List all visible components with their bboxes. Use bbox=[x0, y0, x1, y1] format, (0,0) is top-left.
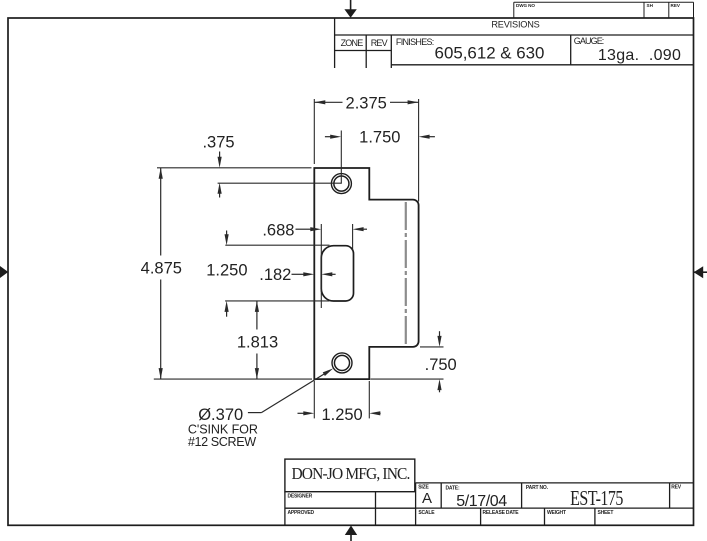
svg-text:RELEASE DATE: RELEASE DATE bbox=[483, 510, 520, 516]
svg-text:1.250: 1.250 bbox=[206, 261, 247, 279]
svg-text:13ga. .090: 13ga. .090 bbox=[598, 47, 681, 64]
svg-text:Ø.370: Ø.370 bbox=[198, 406, 243, 424]
svg-text:605,612 & 630: 605,612 & 630 bbox=[435, 43, 545, 62]
svg-text:2.375: 2.375 bbox=[346, 95, 387, 113]
svg-text:WEIGHT: WEIGHT bbox=[547, 510, 566, 516]
svg-text:.375: .375 bbox=[202, 134, 234, 152]
svg-text:REV: REV bbox=[671, 3, 681, 8]
svg-text:.182: .182 bbox=[259, 266, 291, 284]
svg-text:ZONE: ZONE bbox=[341, 38, 364, 48]
svg-text:FINISHES:: FINISHES: bbox=[396, 37, 434, 47]
svg-text:#12 SCREW: #12 SCREW bbox=[188, 435, 256, 449]
svg-text:SH: SH bbox=[647, 3, 654, 8]
svg-text:DESIGNER: DESIGNER bbox=[288, 494, 313, 500]
svg-text:PART NO.: PART NO. bbox=[526, 485, 549, 491]
svg-text:APPROVED: APPROVED bbox=[288, 510, 315, 516]
svg-text:EST-175: EST-175 bbox=[570, 487, 623, 511]
svg-text:DATE:: DATE: bbox=[446, 485, 460, 491]
svg-text:.750: .750 bbox=[425, 356, 457, 374]
svg-text:GAUGE:: GAUGE: bbox=[574, 36, 604, 46]
svg-text:REVISIONS: REVISIONS bbox=[491, 20, 539, 30]
svg-text:REV: REV bbox=[371, 38, 388, 48]
svg-text:DON-JO MFG, INC.: DON-JO MFG, INC. bbox=[291, 463, 409, 483]
svg-text:A: A bbox=[422, 490, 432, 507]
svg-text:5/17/04: 5/17/04 bbox=[456, 493, 507, 510]
svg-text:1.250: 1.250 bbox=[321, 406, 362, 424]
svg-text:.688: .688 bbox=[262, 222, 294, 240]
svg-text:1.750: 1.750 bbox=[359, 129, 400, 147]
svg-text:SHEET: SHEET bbox=[598, 510, 614, 516]
svg-text:DWG NO: DWG NO bbox=[516, 3, 535, 8]
svg-text:REV: REV bbox=[671, 485, 682, 491]
svg-text:1.813: 1.813 bbox=[237, 334, 278, 352]
svg-text:4.875: 4.875 bbox=[141, 260, 182, 278]
svg-text:SCALE: SCALE bbox=[418, 510, 435, 516]
